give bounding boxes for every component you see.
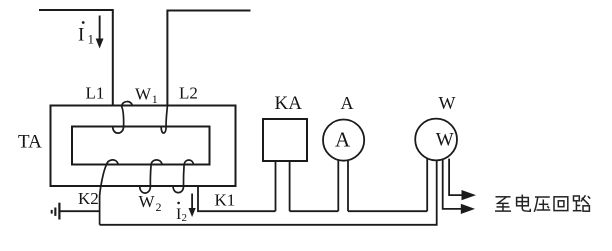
ammeter A circle — [323, 120, 364, 161]
winding W2 secondary turn B — [140, 160, 162, 193]
svg-text:2: 2 — [182, 212, 188, 224]
wire KA to A — [290, 210, 339, 212]
label 至电压回路 (to voltage circuit) drawn as strokes — [495, 195, 590, 212]
svg-text:L1: L1 — [86, 84, 105, 103]
wire A lead left — [337, 160, 339, 211]
wire ground branch from K2 — [61, 210, 100, 212]
winding W2 secondary turn C — [173, 160, 193, 193]
i1 dot (phasor) — [82, 21, 85, 24]
wire A to W — [348, 210, 427, 212]
svg-text:W: W — [439, 93, 456, 113]
svg-text:W: W — [139, 192, 156, 211]
current arrow i1 head and shaft — [99, 16, 101, 41]
current arrow i2 head and shaft — [191, 194, 193, 211]
wire W voltage lead 1 — [443, 160, 462, 209]
ground symbol — [58, 203, 60, 220]
svg-text:1: 1 — [88, 32, 95, 47]
svg-text:K2: K2 — [78, 189, 99, 208]
svg-text:L2: L2 — [179, 84, 198, 103]
transformer TA core (inner rectangle) — [72, 127, 210, 165]
svg-text:K1: K1 — [215, 191, 236, 210]
wire KA lead left — [275, 161, 277, 211]
svg-text:KA: KA — [275, 93, 303, 114]
winding W2 secondary turn A (K2 lead rising, hook over core bottom) — [100, 160, 119, 225]
wire W voltage lead 2 — [449, 159, 462, 196]
svg-text:W: W — [436, 129, 454, 150]
winding W1 primary left turn (hook over case top, bight under core top) — [113, 102, 133, 134]
svg-text:W: W — [135, 84, 152, 103]
arrow to voltage circuit lower — [461, 204, 475, 214]
wire W current lead left — [426, 159, 428, 211]
svg-text:A: A — [341, 93, 354, 113]
winding W1 primary right turn at L2 — [161, 106, 167, 134]
char 电 — [517, 195, 531, 212]
svg-text:TA: TA — [18, 132, 42, 153]
svg-text:2: 2 — [156, 200, 162, 214]
char 回 — [554, 197, 568, 211]
transformer TA outer case — [51, 106, 236, 187]
i2 dot (phasor) — [177, 202, 180, 205]
char 至 — [495, 197, 511, 211]
wire top bus left segment — [39, 10, 113, 106]
svg-text:A: A — [335, 128, 351, 152]
char 压 — [534, 197, 550, 212]
wire bottom return from K2 to W — [100, 160, 437, 225]
svg-text:1: 1 — [152, 92, 158, 106]
wire KA lead right — [289, 161, 291, 211]
svg-text:I: I — [78, 25, 84, 46]
relay KA box — [263, 119, 307, 161]
char 路 — [573, 195, 590, 211]
wire A lead right — [347, 160, 349, 211]
wire K1 lead down and to instruments — [198, 186, 276, 211]
wire top bus right segment (L2 drop) — [167, 11, 250, 106]
wattmeter W circle — [415, 119, 457, 161]
arrow to voltage circuit upper — [462, 190, 477, 200]
